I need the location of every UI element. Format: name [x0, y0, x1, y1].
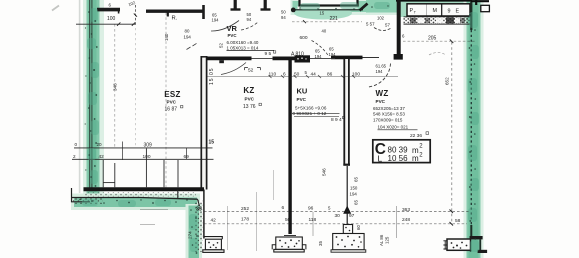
svg-text:0: 0	[75, 142, 78, 147]
top right black corner mark	[471, 0, 490, 5]
svg-text:6: 6	[282, 205, 285, 211]
footing F3 with stem	[331, 166, 366, 252]
svg-text:348: 348	[113, 83, 118, 91]
svg-text:6: 6	[283, 71, 286, 77]
wall stub top x235 with cap	[234, 0, 237, 9]
green bottom-left horizontal band core	[74, 198, 197, 208]
svg-text:44: 44	[311, 71, 317, 77]
right wall corner mark near footing	[470, 236, 488, 253]
svg-text:9 5: 9 5	[265, 51, 272, 57]
svg-text:VR: VR	[227, 24, 238, 33]
svg-text:194: 194	[376, 69, 384, 74]
green bottom-left horizontal band halo	[71, 194, 200, 211]
thin balcony front line with end blob	[293, 9, 364, 11]
door arc KZ	[221, 63, 246, 75]
svg-text:A 810: A 810	[291, 51, 304, 57]
green top band around balcony	[291, 0, 484, 15]
KZ left cavity wall double line	[201, 56, 206, 190]
svg-text:PVC: PVC	[376, 99, 386, 104]
svg-text:363: 363	[402, 207, 410, 213]
svg-text:69: 69	[184, 154, 190, 160]
svg-text:274: 274	[188, 231, 193, 239]
svg-text:20: 20	[97, 142, 103, 147]
svg-text:8 9 4: 8 9 4	[331, 117, 342, 123]
svg-text:50: 50	[281, 10, 286, 15]
svg-text:ESZ: ESZ	[164, 90, 180, 99]
svg-text:194: 194	[212, 17, 220, 22]
KZ/KU wall	[288, 59, 291, 234]
footing outline under ESZ wall	[72, 188, 200, 206]
svg-text:194: 194	[315, 54, 323, 59]
svg-text:E: E	[456, 9, 460, 15]
svg-text:194: 194	[329, 52, 337, 57]
svg-text:65: 65	[329, 47, 334, 52]
green top band right part	[366, 0, 483, 13]
dim extension x256	[256, 192, 258, 251]
svg-text:6.00X160 =9.40: 6.00X160 =9.40	[227, 40, 259, 45]
green right vertical strip	[464, 0, 484, 258]
svg-text:15: 15	[209, 140, 215, 146]
dimension line 100	[76, 23, 135, 25]
svg-text:PVC: PVC	[167, 100, 177, 105]
svg-text:548 X156= 8.53: 548 X156= 8.53	[373, 112, 405, 117]
svg-text:104 X020= 021: 104 X020= 021	[378, 125, 409, 130]
svg-text:86: 86	[327, 71, 333, 77]
svg-text:140: 140	[164, 33, 169, 41]
ESZ dim row line 1	[74, 147, 213, 149]
svg-text:22 36: 22 36	[410, 133, 422, 139]
door arc VR right dashed	[241, 23, 258, 31]
svg-text:94: 94	[281, 15, 286, 20]
KZ wall lower thin continuation to footing	[203, 190, 205, 239]
wall corner blob WZ top	[394, 54, 403, 60]
door arc WZ entrance	[368, 64, 391, 88]
stipple dots along ESZ footing	[84, 192, 196, 196]
svg-text:15: 15	[320, 10, 325, 15]
svg-text:42: 42	[99, 154, 105, 160]
svg-text:50: 50	[285, 217, 291, 223]
dim extension dashed x132	[134, 5, 136, 26]
WZ top wall	[331, 56, 363, 60]
svg-text:50: 50	[294, 71, 300, 77]
door arc dashes near R door	[187, 43, 197, 49]
wall vertical x397-401 top right	[397, 0, 401, 56]
balcony line end blob	[291, 7, 296, 12]
bottom dim chain line B	[204, 223, 467, 225]
svg-text:65: 65	[354, 177, 359, 182]
svg-text:205: 205	[428, 35, 437, 41]
svg-text:30: 30	[335, 213, 341, 219]
svg-text:194: 194	[184, 34, 192, 39]
svg-text:PVC: PVC	[245, 97, 255, 102]
svg-text:KZ: KZ	[243, 86, 254, 95]
svg-text:15 05: 15 05	[209, 67, 215, 85]
dim extension x166 dashed tall	[165, 13, 167, 189]
svg-text:150: 150	[350, 186, 358, 191]
svg-text:248: 248	[402, 217, 410, 223]
svg-text:600: 600	[300, 35, 308, 41]
mottling patches on green strips	[82, 2, 479, 252]
wall dark line inside left green strip	[90, 0, 92, 190]
dim line 221 under balcony	[292, 21, 362, 23]
svg-text:546: 546	[322, 168, 327, 176]
neighbour room table top-right	[407, 4, 470, 16]
svg-text:35: 35	[196, 206, 202, 212]
KZ top wall	[207, 57, 252, 61]
svg-text:9: 9	[448, 9, 451, 15]
top edge line above right table	[396, 0, 472, 2]
footing F2	[272, 236, 306, 253]
svg-text:102: 102	[377, 16, 385, 21]
ESZ dim row line 2	[72, 158, 214, 160]
svg-text:652: 652	[445, 77, 450, 85]
ESZ bottom wall	[84, 187, 205, 191]
svg-text:60: 60	[356, 225, 361, 230]
svg-text:16 87: 16 87	[165, 107, 178, 113]
svg-text:80: 80	[185, 29, 190, 34]
wall stub junction x167	[167, 11, 169, 17]
green vertical band going to bottom edge	[186, 204, 203, 258]
svg-text:170X009= 015: 170X009= 015	[373, 117, 403, 122]
door arc WZ second	[429, 53, 446, 56]
svg-text:42: 42	[211, 217, 217, 223]
green highlighted wall: left vertical strip halo	[71, 0, 484, 258]
thin sill line KZ opening	[252, 57, 274, 59]
dim line 205 top right	[403, 40, 476, 42]
door arc VR left	[211, 21, 239, 32]
svg-text:652X205=13 37: 652X205=13 37	[373, 106, 405, 111]
green left wall core	[87, 0, 100, 194]
svg-text:52: 52	[219, 43, 224, 48]
svg-text:AL 86: AL 86	[379, 234, 384, 246]
dim extension x122	[122, 142, 124, 161]
area box C / L	[373, 140, 430, 164]
door arc KU entrance dashed	[312, 41, 329, 57]
diagonal corner mark right of balcony	[360, 4, 368, 11]
speckles on green walls	[79, 5, 476, 254]
svg-text:PVC: PVC	[228, 33, 238, 38]
dim extension x313	[312, 212, 314, 236]
svg-text:m: m	[412, 154, 419, 163]
svg-text:110: 110	[269, 71, 277, 77]
svg-text:97: 97	[349, 213, 355, 219]
svg-text:194: 194	[350, 191, 358, 196]
svg-text:M: M	[433, 8, 438, 14]
wall top segment B	[146, 9, 203, 12]
thin sill line WZ door	[363, 57, 380, 59]
svg-text:118: 118	[309, 217, 317, 223]
svg-text:WZ: WZ	[376, 89, 389, 98]
svg-text:5+5X166 =9.06: 5+5X166 =9.06	[295, 106, 327, 111]
svg-text:13 76: 13 76	[243, 104, 256, 110]
svg-text:35: 35	[318, 241, 323, 246]
vertical dashed dim x451	[451, 42, 453, 224]
dim extension x273 faint	[272, 170, 274, 200]
svg-text:96: 96	[308, 206, 314, 212]
dim extension x186	[186, 148, 188, 160]
right wall dark dashed line inside green	[470, 30, 472, 225]
mid dim line y74 ticks	[269, 75, 356, 78]
svg-text:309: 309	[144, 143, 153, 149]
dim extension x227	[227, 206, 229, 250]
tick marks	[134, 14, 454, 226]
stippled wall band under table	[404, 17, 471, 24]
svg-text:61.65: 61.65	[376, 64, 387, 69]
svg-text:57: 57	[385, 23, 390, 28]
svg-text:KU: KU	[297, 87, 308, 96]
svg-text:65: 65	[315, 49, 320, 54]
KU top wall	[273, 57, 296, 61]
dim extension x396	[396, 206, 398, 238]
stipple dots on green corner / vertical run	[195, 200, 203, 252]
door jamb tooth below KZ top wall	[219, 60, 224, 63]
svg-text:L: L	[378, 153, 383, 163]
svg-text:5 57: 5 57	[366, 22, 375, 27]
KZ/KU top dim line	[207, 76, 398, 78]
svg-text:100: 100	[352, 71, 360, 77]
svg-text:1 05X013 = 014: 1 05X013 = 014	[227, 45, 259, 50]
svg-text:100: 100	[143, 154, 151, 160]
footing F1	[203, 237, 224, 253]
svg-text:52: 52	[248, 68, 254, 74]
svg-text:PVC: PVC	[297, 97, 307, 102]
svg-text:125: 125	[385, 236, 390, 244]
svg-text:10 56: 10 56	[388, 154, 409, 163]
svg-text:221: 221	[330, 16, 339, 22]
wall top-left segment A	[97, 8, 120, 12]
svg-text:58: 58	[455, 218, 461, 224]
door jamb cap at x203	[202, 5, 205, 19]
door arc top-right small	[374, 28, 392, 31]
A810 filled door box	[295, 55, 311, 62]
svg-text:R.: R.	[172, 16, 178, 22]
thin sill line KU door	[310, 58, 335, 60]
footing F4	[443, 239, 470, 250]
svg-text:252: 252	[241, 206, 249, 212]
window jambs on ESZ bottom wall	[103, 149, 178, 188]
svg-text:94: 94	[247, 17, 252, 22]
balcony white box	[300, 0, 358, 6]
svg-text:2: 2	[73, 154, 76, 159]
svg-text:178: 178	[241, 216, 249, 222]
scan edge gray streak	[79, 0, 81, 193]
svg-text:65: 65	[354, 200, 359, 205]
bottom dim chain line A	[204, 210, 469, 212]
left stubs of dim lines	[140, 209, 168, 224]
KU/WZ cavity wall double line	[343, 59, 350, 165]
wall stub top x265 with cap	[264, 0, 267, 9]
svg-text:40: 40	[322, 29, 327, 34]
svg-text:100: 100	[107, 16, 116, 22]
